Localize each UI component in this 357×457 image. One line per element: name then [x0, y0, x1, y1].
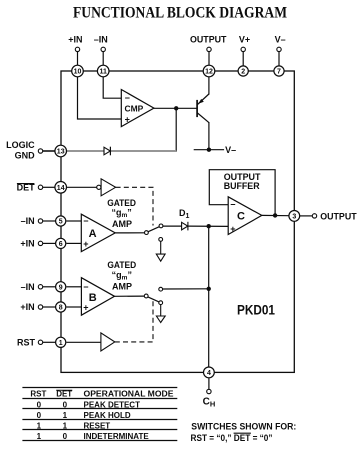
- svg-text:2: 2: [241, 69, 245, 76]
- svg-text:–IN: –IN: [21, 216, 35, 226]
- pin 11: [97, 65, 109, 77]
- comparator CMP: [121, 90, 154, 127]
- wire pin10 to CMP + input: [78, 76, 122, 119]
- svg-text:B: B: [89, 292, 97, 304]
- label GATED gm AMP (A): [107, 198, 136, 229]
- svg-text:11: 11: [99, 69, 107, 76]
- terminal OUTPUT (12): [207, 47, 211, 65]
- svg-text:GND: GND: [15, 150, 36, 160]
- pin 8: [56, 302, 66, 312]
- svg-text:−: −: [83, 282, 88, 292]
- terminal V+ (2): [241, 47, 245, 66]
- svg-text:RST: RST: [30, 390, 46, 399]
- gated gm amp A: [81, 214, 115, 251]
- node junction C output feedback: [273, 213, 277, 217]
- svg-text:+IN: +IN: [68, 35, 82, 45]
- svg-text:PEAK DETECT: PEAK DETECT: [84, 400, 141, 409]
- transistor Q1 (PNP): [197, 76, 209, 150]
- svg-text:FUNCTIONAL BLOCK DIAGRAM: FUNCTIONAL BLOCK DIAGRAM: [73, 4, 287, 21]
- wire switch A to diode D1: [163, 225, 182, 227]
- terminal +IN (8): [38, 305, 55, 309]
- wire pin9 to B: [66, 286, 81, 288]
- svg-text:12: 12: [205, 69, 213, 76]
- pin 5: [56, 216, 66, 226]
- svg-text:–IN: –IN: [21, 282, 35, 292]
- svg-text:14: 14: [57, 185, 65, 192]
- svg-text:A: A: [89, 228, 97, 240]
- wire D1 to C amp + input: [188, 225, 228, 227]
- svg-text:+IN: +IN: [20, 239, 34, 249]
- pin 7: [274, 66, 284, 76]
- buffer RST: [66, 333, 114, 351]
- svg-text:V+: V+: [239, 35, 250, 45]
- svg-text:6: 6: [59, 241, 63, 248]
- svg-text:+: +: [83, 239, 88, 249]
- svg-text:0: 0: [63, 432, 68, 441]
- svg-text:+: +: [230, 224, 235, 234]
- ground arrow below switch A: [156, 241, 165, 261]
- svg-text:RST: RST: [17, 338, 36, 348]
- svg-text:V–: V–: [275, 35, 286, 45]
- svg-text:LOGIC: LOGIC: [6, 140, 35, 150]
- pin 14: [55, 182, 67, 194]
- node collector to V-: [207, 148, 211, 152]
- svg-text:INDETERMINATE: INDETERMINATE: [84, 432, 150, 441]
- svg-text:1: 1: [63, 411, 68, 420]
- svg-text:GATED: GATED: [107, 198, 136, 208]
- svg-text:RST = “0,” DET = “0”: RST = “0,” DET = “0”: [191, 433, 273, 443]
- pin 3: [289, 211, 300, 222]
- svg-text:BUFFER: BUFFER: [224, 181, 260, 191]
- svg-text:C: C: [237, 210, 245, 222]
- terminal LOGIC GND (13): [38, 149, 55, 153]
- svg-text:−: −: [230, 199, 235, 209]
- pin 13: [55, 145, 67, 157]
- wire pin11 to CMP - input: [103, 76, 121, 98]
- wire CMP output to transistor base: [154, 107, 197, 109]
- terminal V- (7): [277, 47, 281, 66]
- pin 1: [56, 337, 66, 347]
- terminal OUTPUT (3): [300, 214, 317, 218]
- svg-text:7: 7: [277, 69, 281, 76]
- op-amp C output buffer: [228, 197, 262, 235]
- svg-text:OPERATIONAL MODE: OPERATIONAL MODE: [84, 390, 175, 399]
- svg-text:9: 9: [59, 284, 63, 291]
- node junction CMP output: [174, 106, 178, 110]
- svg-text:1: 1: [37, 432, 42, 441]
- ground arrow below switch B: [156, 305, 165, 323]
- wire dashed DET control: [116, 187, 153, 225]
- svg-text:RESET: RESET: [84, 421, 111, 430]
- wire LOGIC GND gray line: [43, 150, 176, 152]
- terminal CH (4): [207, 378, 211, 394]
- terminal -IN (5): [38, 219, 55, 223]
- truth table: [22, 388, 177, 441]
- pin 4: [204, 367, 215, 378]
- wire V- bar: [194, 149, 224, 151]
- wire junction vertical to logic-gnd line: [175, 108, 177, 151]
- svg-text:0: 0: [37, 411, 42, 420]
- terminal -IN (9): [38, 285, 55, 289]
- svg-text:PEAK HOLD: PEAK HOLD: [84, 411, 131, 420]
- svg-text:4: 4: [207, 370, 211, 377]
- svg-text:AMP: AMP: [112, 282, 132, 292]
- wire pin5 to A: [66, 220, 81, 222]
- svg-text:+: +: [125, 115, 130, 125]
- terminal +IN (10): [75, 47, 79, 65]
- pin 2: [238, 66, 248, 76]
- svg-text:1: 1: [63, 421, 68, 430]
- note SWITCHES SHOWN FOR: [191, 422, 297, 444]
- label OUTPUT BUFFER: [224, 172, 261, 191]
- output buffer C feedback loop: [209, 170, 275, 216]
- svg-text:SWITCHES SHOWN FOR:: SWITCHES SHOWN FOR:: [191, 422, 296, 432]
- terminal +IN (6): [38, 241, 55, 245]
- svg-text:V–: V–: [225, 145, 236, 155]
- svg-text:0: 0: [63, 400, 68, 409]
- terminal RST (1): [38, 340, 55, 344]
- node junction B switch wire: [207, 287, 211, 291]
- svg-text:5: 5: [59, 219, 63, 226]
- node junction D1 line: [207, 224, 211, 228]
- pin 12: [203, 65, 215, 77]
- wire pin8 to B: [66, 306, 81, 308]
- svg-text:–IN: –IN: [94, 35, 108, 45]
- chip outline box PKD01: [61, 71, 294, 372]
- wire pin6 to A: [66, 242, 81, 244]
- wire hold cap vertical: [208, 226, 210, 367]
- svg-text:−: −: [83, 216, 88, 226]
- terminal DET (14): [38, 185, 55, 189]
- switch A (DET controlled): [115, 224, 163, 241]
- diode on LOGIC GND line: [104, 147, 110, 156]
- gated gm amp B: [81, 278, 114, 316]
- svg-text:DET: DET: [56, 390, 72, 399]
- label LOGIC GND: [6, 140, 35, 160]
- svg-text:PKD01: PKD01: [237, 302, 275, 317]
- switch B (RST controlled): [115, 287, 163, 304]
- pin 9: [56, 282, 66, 292]
- svg-text:+IN: +IN: [20, 302, 34, 312]
- svg-text:GATED: GATED: [107, 260, 136, 270]
- pin 10: [72, 65, 84, 77]
- label DET with overbar: [17, 183, 36, 193]
- wire C output to pin3: [262, 214, 289, 216]
- svg-text:CMP: CMP: [125, 103, 144, 113]
- svg-text:OUTPUT: OUTPUT: [190, 35, 227, 45]
- svg-text:1: 1: [59, 340, 63, 347]
- svg-text:OUTPUT: OUTPUT: [320, 211, 357, 221]
- svg-text:8: 8: [59, 305, 63, 312]
- svg-text:−: −: [125, 93, 130, 103]
- svg-text:1: 1: [37, 421, 42, 430]
- label GATED gm AMP (B): [107, 260, 136, 291]
- wire dashed RST control: [115, 299, 153, 342]
- pin 6: [56, 238, 66, 248]
- terminal -IN (11): [101, 47, 105, 65]
- svg-text:10: 10: [74, 69, 82, 76]
- diode D1: [182, 222, 188, 231]
- wire switch B to hold line: [163, 288, 209, 290]
- svg-text:AMP: AMP: [112, 219, 132, 229]
- svg-text:+: +: [83, 302, 88, 312]
- svg-text:13: 13: [57, 149, 65, 156]
- inverter DET buffer: [66, 179, 115, 196]
- svg-text:3: 3: [292, 214, 296, 221]
- svg-text:0: 0: [37, 400, 42, 409]
